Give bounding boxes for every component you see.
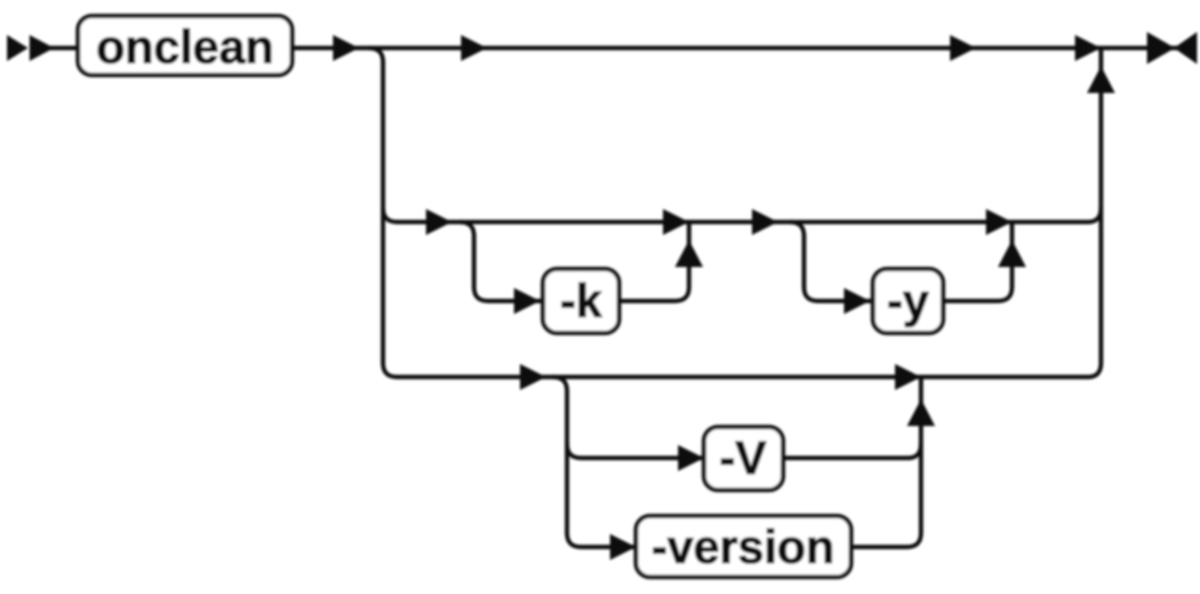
arrowhead row1 right (950, 35, 976, 61)
wire right vertical merge to row1 (1088, 50, 1101, 377)
wire option bypass row2 (383, 208, 1088, 222)
arrowhead row2 start (426, 209, 452, 235)
start symbol (double arrowhead) (7, 35, 54, 61)
svg-text:-version: -version (652, 520, 835, 573)
terminal box -V (704, 427, 783, 490)
up arrowhead -k merge (675, 240, 703, 267)
arrowhead row2 at -y merge (986, 209, 1012, 235)
svg-text:onclean: onclean (96, 20, 274, 73)
svg-text:-y: -y (887, 274, 929, 327)
arrowhead before -y (844, 288, 870, 314)
terminal box -y (873, 269, 943, 333)
wire drop for -V / -version alternatives (553, 377, 581, 547)
arrowhead row4 start (520, 364, 546, 390)
up arrowhead -y merge (998, 240, 1026, 267)
wire row2 corner up into right vertical (1088, 208, 1101, 222)
wire main line row1 (292, 46, 1197, 50)
wire -k exit up-merge (619, 224, 689, 301)
wire bottom bypass row4 (397, 375, 1088, 379)
arrowhead before -V (678, 445, 704, 471)
arrowhead before -version (610, 534, 636, 560)
terminal box onclean (78, 16, 292, 75)
arrowhead row4 at merge (895, 364, 921, 390)
wire -version row entry (581, 545, 640, 549)
arrowhead row1 bypass (461, 35, 487, 61)
svg-text:-k: -k (560, 274, 603, 327)
arrowhead row2 at -k merge (663, 209, 689, 235)
branch wire down-left vertical (369, 48, 397, 377)
wire from start to onclean (50, 46, 80, 50)
svg-text:-V: -V (720, 431, 768, 484)
terminal box -version (636, 516, 851, 577)
arrowhead after onclean (333, 35, 359, 61)
wire -y exit up-merge (943, 224, 1012, 301)
wire -version exit up-merge vertical (851, 379, 921, 547)
end symbol (facing arrowheads) (1147, 32, 1197, 64)
up arrowhead right vertical (1087, 66, 1115, 93)
terminal box -k (543, 269, 619, 333)
wire drop to -y (790, 222, 875, 301)
wire drop to -k (460, 222, 545, 301)
wire branch to -V row (567, 444, 708, 458)
wire -V exit to merge vertical (783, 444, 921, 458)
up arrowhead bottom merge (907, 399, 935, 426)
arrowhead row1 at right merge (1075, 35, 1101, 61)
arrowhead before -k (514, 288, 540, 314)
arrowhead row2 before -y group (752, 209, 778, 235)
